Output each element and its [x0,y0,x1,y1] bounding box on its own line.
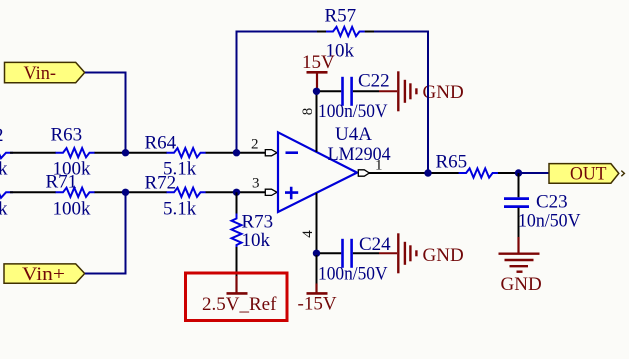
svg-text:C24: C24 [359,234,391,255]
wire OUT node down to C23 [518,173,520,197]
capacitor C22 100n/50V [318,70,390,122]
svg-text:OUT: OUT [570,163,607,184]
svg-text:10k: 10k [242,230,271,251]
ground GND at C24 [379,233,464,273]
svg-text:C22: C22 [358,70,390,91]
power port -15V [298,255,337,315]
wire row1 mid [95,152,168,154]
svg-text:8: 8 [300,108,316,116]
junction row1 Vin- [122,149,129,156]
junction row2 R73 [233,189,240,196]
resistor partial left row1 [0,125,13,180]
pin 4 wire (V-) [316,193,318,253]
junction -15V node [313,250,320,257]
annotation red box around 2.5V_Ref [186,273,288,321]
wire row1 right to pin2 [206,152,267,154]
junction output feedback [424,169,431,176]
resistor R57 10k [325,6,365,62]
resistor partial left row2 [0,186,13,219]
svg-text:-15V: -15V [298,294,337,315]
svg-text:2: 2 [0,125,4,146]
svg-text:GND: GND [423,245,464,266]
pin 3 arrow [265,189,277,195]
svg-text:Vin+: Vin+ [22,264,65,285]
svg-text:15V: 15V [302,52,335,73]
wire C23 to GND [518,208,520,238]
junction row2 Vin+ [122,189,129,196]
svg-text:2: 2 [251,137,259,153]
svg-text:U4A: U4A [335,124,372,145]
junction row1 feedback [233,149,240,156]
svg-text:R72: R72 [145,173,177,194]
wire row2 junction down to R73 [236,192,238,218]
port Vin- [5,62,85,83]
pin 2 arrow [265,150,277,156]
svg-text:k: k [0,159,8,180]
capacitor C23 10n/50V [504,192,581,232]
junction OUT node [515,169,522,176]
svg-text:3: 3 [252,176,260,192]
svg-text:10n/50V: 10n/50V [518,210,581,231]
junction 15V node [313,88,320,95]
wire row2 left [10,191,56,193]
resistor R72 5.1k [145,173,206,220]
svg-text:R71: R71 [46,172,78,193]
svg-text:k: k [0,199,8,220]
wire Vin- to row1 [85,73,126,153]
pin 1 output arrow [358,170,369,176]
resistor R65 [436,152,498,178]
wire row1 left [10,152,56,154]
wire row2 mid [95,191,168,193]
wire C24 to GND [353,252,379,254]
op-amp U4A LM2904 [278,124,391,212]
svg-text:2.5V_Ref: 2.5V_Ref [202,294,277,315]
resistor R64 5.1k [145,133,206,180]
svg-text:Vin-: Vin- [24,63,57,84]
wire OUT node to port [522,172,549,174]
svg-text:R65: R65 [436,152,468,173]
svg-text:R57: R57 [325,6,357,27]
svg-text:5.1k: 5.1k [163,199,197,220]
wire feedback top horizontal [237,32,429,174]
wire R65 to OUT node [498,172,522,174]
svg-text:100n/50V: 100n/50V [318,101,388,122]
power port 2.5V_Ref [202,276,277,315]
svg-text:1: 1 [375,158,383,174]
power port 15V [302,52,335,90]
port OUT [549,163,624,184]
svg-text:4: 4 [300,230,316,238]
wire row2 right to pin3 [206,191,267,193]
wire R73 to 2.5V_Ref [236,247,238,276]
wire Vin+ to row2 [85,192,126,273]
port Vin+ [4,264,85,285]
wire C22 to GND [353,90,379,92]
svg-text:GND: GND [501,274,542,295]
pin 8 wire (V+) [316,93,318,152]
wire 15V node to C22 [320,90,341,92]
resistor R63 100k [51,125,95,180]
svg-text:100k: 100k [53,199,92,220]
capacitor C24 100n/50V [318,234,391,284]
svg-text:R63: R63 [51,125,83,146]
resistor R71 100k [46,172,95,220]
ground GND at C22 [379,71,464,111]
wire -15V node to C24 [320,252,341,254]
resistor R73 10k [232,212,274,253]
svg-text:R64: R64 [145,133,177,154]
svg-text:100n/50V: 100n/50V [318,263,388,284]
wire output to R65 [369,172,459,174]
ground GND at C23 [499,237,542,295]
